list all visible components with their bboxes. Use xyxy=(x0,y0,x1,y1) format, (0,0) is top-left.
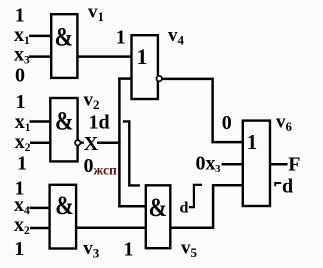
svg-text:0: 0 xyxy=(222,112,232,134)
svg-text:1: 1 xyxy=(15,4,25,26)
wire x2 to V3 xyxy=(30,227,51,230)
OR gate V4 xyxy=(132,35,158,99)
AND gate V5 xyxy=(146,185,171,248)
svg-text:1: 1 xyxy=(17,153,27,175)
AND gate V3 xyxy=(50,185,77,249)
rising edge symbol xyxy=(189,185,202,207)
svg-text:1: 1 xyxy=(116,26,126,48)
wire x2 to V2 xyxy=(30,141,51,144)
svg-text:v1: v1 xyxy=(88,2,104,25)
svg-text:d: d xyxy=(282,176,293,198)
bracket d-path marker xyxy=(123,121,140,185)
svg-text:1: 1 xyxy=(124,238,134,260)
svg-text:v3: v3 xyxy=(83,238,100,261)
wire bubble to X xyxy=(80,142,84,144)
svg-text:&: & xyxy=(55,108,73,136)
wire V3 output to V5 xyxy=(75,227,147,230)
svg-text:v6: v6 xyxy=(276,112,293,135)
svg-text:v2: v2 xyxy=(84,89,100,112)
wire x1 to V1 xyxy=(29,35,52,38)
wire V5 output to V6 xyxy=(170,185,245,228)
wire F output xyxy=(269,163,288,166)
svg-text:1d: 1d xyxy=(89,111,110,133)
svg-text:x2: x2 xyxy=(14,214,30,237)
output bubble V4 xyxy=(157,76,162,81)
svg-text:d: d xyxy=(180,200,189,217)
wire x3 to V1 xyxy=(29,55,52,58)
node vertical wire X net xyxy=(118,78,121,208)
svg-text:0жсп: 0жсп xyxy=(84,155,118,178)
svg-text:v4: v4 xyxy=(168,25,185,48)
AND gate V1 xyxy=(51,14,77,78)
svg-text:&: & xyxy=(55,193,73,221)
svg-text:F: F xyxy=(288,153,300,175)
svg-text:&: & xyxy=(55,24,73,52)
svg-text:1: 1 xyxy=(16,91,26,113)
svg-text:X: X xyxy=(84,133,99,155)
wire into V5 upper input xyxy=(118,205,147,208)
wire X to junction xyxy=(97,141,121,144)
wire V1 output to V4 xyxy=(77,55,133,58)
svg-text:&: & xyxy=(149,195,167,223)
svg-text:v5: v5 xyxy=(181,238,198,261)
wire V4 output to V6 xyxy=(162,79,244,142)
falling edge symbol before d xyxy=(275,183,281,186)
output bubble V2 xyxy=(75,140,80,145)
wire x4 to V3 xyxy=(30,207,51,210)
svg-text:1: 1 xyxy=(14,238,24,260)
wire 0x3 to V6 xyxy=(222,163,245,166)
svg-text:1: 1 xyxy=(247,130,257,154)
svg-text:1: 1 xyxy=(137,44,148,69)
wire x1 to V2 xyxy=(30,120,52,123)
wire into V4 lower input xyxy=(118,77,132,80)
svg-text:0x3: 0x3 xyxy=(196,153,222,176)
OR gate V6 xyxy=(243,121,270,206)
svg-text:x2: x2 xyxy=(15,131,31,154)
svg-text:0: 0 xyxy=(15,64,25,86)
AND gate V2 xyxy=(50,98,77,161)
